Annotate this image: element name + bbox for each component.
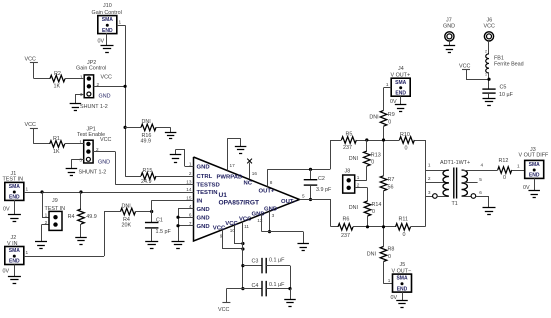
svg-text:OPA857IRGT: OPA857IRGT [219,200,260,207]
svg-text:4: 4 [481,163,484,168]
svg-text:R6: R6 [343,217,350,223]
svg-text:R2: R2 [54,71,61,77]
svg-text:VCC: VCC [239,216,252,222]
svg-text:49.9: 49.9 [141,139,152,145]
svg-text:R7: R7 [388,177,395,183]
svg-text:6: 6 [189,212,192,217]
svg-text:3.9 pF: 3.9 pF [316,187,332,193]
svg-text:5: 5 [302,193,305,198]
svg-text:J5: J5 [400,262,406,268]
svg-text:DNI: DNI [349,205,358,211]
svg-text:16: 16 [252,171,258,176]
svg-text:VCC: VCC [213,226,226,232]
svg-text:56: 56 [388,185,394,191]
svg-text:49.9: 49.9 [86,214,97,220]
svg-text:0: 0 [403,232,406,238]
svg-text:1: 1 [357,175,360,180]
svg-text:0.1 µF: 0.1 µF [269,282,285,288]
svg-text:7: 7 [189,221,192,226]
svg-text:1: 1 [26,186,29,191]
svg-text:10 µF: 10 µF [499,92,514,98]
svg-text:SMA: SMA [395,80,407,86]
svg-text:END: END [395,90,406,96]
svg-text:237: 237 [341,233,350,239]
svg-text:GND: GND [443,24,455,30]
svg-text:1: 1 [45,213,48,218]
svg-text:R8: R8 [388,246,395,252]
svg-text:0: 0 [388,120,391,126]
svg-text:0V: 0V [98,39,105,45]
svg-text:V OUT DIFF: V OUT DIFF [519,153,550,159]
svg-text:15: 15 [186,195,192,200]
svg-text:END: END [9,259,20,265]
svg-text:0.1 µF: 0.1 µF [269,257,285,263]
svg-text:DNI: DNI [142,119,151,125]
svg-text:1: 1 [428,163,431,168]
svg-text:R11: R11 [399,217,409,223]
svg-text:R1: R1 [53,136,60,142]
svg-text:J4: J4 [398,66,404,72]
svg-text:VCC: VCC [459,63,470,69]
svg-text:VCC: VCC [218,307,229,313]
svg-text:3: 3 [428,190,431,195]
svg-text:10: 10 [230,228,236,233]
svg-text:Gain Control: Gain Control [76,65,106,71]
svg-text:2: 2 [189,171,192,176]
svg-text:11: 11 [244,224,249,229]
svg-text:SHUNT 1-2: SHUNT 1-2 [79,170,107,176]
svg-text:VCC: VCC [100,137,111,143]
svg-text:1: 1 [517,164,520,169]
svg-text:TESTIN: TESTIN [197,190,218,196]
svg-text:C5: C5 [500,85,507,91]
svg-text:DNI: DNI [349,156,358,162]
svg-text:DNI: DNI [369,115,378,121]
svg-text:ADT1-1WT+: ADT1-1WT+ [440,160,470,166]
svg-text:2: 2 [428,176,431,181]
svg-text:R9: R9 [388,112,395,118]
svg-text:GND: GND [98,159,110,165]
svg-text:237: 237 [343,145,352,151]
svg-text:PWRPAD: PWRPAD [217,174,243,180]
svg-text:R15: R15 [143,168,153,174]
svg-text:CTRL: CTRL [197,174,213,180]
svg-text:2: 2 [357,182,360,187]
svg-text:VCC: VCC [25,122,36,128]
svg-text:J9: J9 [52,198,58,204]
svg-text:END: END [397,286,408,292]
svg-text:U1: U1 [219,192,228,199]
svg-text:R4: R4 [68,214,75,220]
svg-text:R10: R10 [400,132,410,138]
svg-text:C3: C3 [252,258,259,264]
svg-text:NC: NC [244,181,253,187]
svg-text:1: 1 [388,278,391,283]
svg-text:IN: IN [197,198,203,204]
svg-text:VCC: VCC [225,221,238,227]
svg-text:GND: GND [197,165,210,171]
svg-text:VCC: VCC [25,57,36,63]
svg-text:24.9: 24.9 [141,179,152,185]
svg-text:0: 0 [371,159,374,165]
svg-text:DNI: DNI [122,203,131,209]
svg-text:2: 2 [45,220,48,225]
svg-text:T1: T1 [452,201,458,207]
svg-text:END: END [102,28,113,34]
svg-text:OUT−: OUT− [281,199,297,205]
svg-text:R13: R13 [371,153,381,159]
svg-text:R12: R12 [499,158,509,164]
svg-text:SMA: SMA [529,162,541,168]
svg-text:1: 1 [119,20,122,25]
svg-text:R5: R5 [346,131,353,137]
svg-text:1: 1 [26,250,29,255]
svg-text:12: 12 [257,218,263,223]
svg-text:0V: 0V [3,269,10,275]
svg-text:J8: J8 [345,168,351,174]
svg-text:Ferrite Bead: Ferrite Bead [494,61,524,67]
svg-text:SMA: SMA [396,276,408,282]
svg-text:C2: C2 [318,176,325,182]
svg-text:1: 1 [386,82,389,87]
svg-text:DNI: DNI [367,252,376,258]
svg-text:14: 14 [186,187,192,192]
svg-text:17: 17 [230,163,236,168]
svg-text:0V: 0V [3,207,10,213]
svg-text:0: 0 [503,175,506,181]
svg-text:C4: C4 [252,283,259,289]
svg-text:VCC: VCC [101,75,112,81]
svg-text:SMA: SMA [9,184,21,190]
svg-text:GND: GND [264,206,277,212]
svg-text:END: END [529,173,540,179]
svg-text:0: 0 [405,146,408,152]
svg-text:GND: GND [197,207,210,213]
svg-text:4: 4 [189,204,192,209]
svg-text:13: 13 [186,180,192,185]
svg-text:1: 1 [189,162,192,167]
svg-text:J10: J10 [103,3,112,9]
svg-text:R14: R14 [372,202,382,208]
svg-text:GND: GND [197,215,210,221]
svg-text:8: 8 [270,180,273,185]
svg-text:TESTSD: TESTSD [197,183,220,189]
svg-text:0: 0 [388,254,391,260]
svg-text:20K: 20K [122,223,132,229]
svg-text:SHUNT 1-2: SHUNT 1-2 [80,104,108,110]
svg-text:SMA: SMA [9,248,21,254]
svg-text:1K: 1K [53,149,60,155]
svg-text:GND: GND [99,94,111,100]
svg-text:5: 5 [479,177,482,182]
svg-text:0: 0 [372,209,375,215]
svg-text:6: 6 [479,190,482,195]
svg-text:VCC: VCC [484,24,495,30]
svg-text:9: 9 [220,233,223,238]
svg-text:C1: C1 [156,217,163,223]
svg-text:GND: GND [197,224,210,230]
svg-text:OUT+: OUT+ [259,189,275,195]
svg-text:1K: 1K [54,84,61,90]
svg-text:SMA: SMA [102,17,114,23]
svg-text:GND: GND [252,212,265,218]
svg-text:3: 3 [272,213,275,218]
svg-text:END: END [9,195,20,201]
svg-text:1.5 pF: 1.5 pF [156,229,172,235]
